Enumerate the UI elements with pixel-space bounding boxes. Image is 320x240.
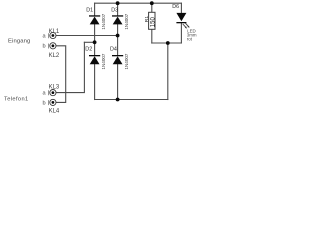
wire D6 top lead [180,3,182,13]
junction node top rail / R1 [150,1,154,5]
wire D2 anode down to bottom rail [94,64,96,99]
svg-text:1N4007: 1N4007 [101,53,106,69]
wire KL2 down to KL4 [56,46,65,103]
svg-text:rot: rot [187,37,193,42]
diode D1 [89,15,100,24]
resistor R1 [149,12,155,29]
wire R1 bottom lead [151,29,153,43]
junction node A [166,41,170,45]
diode D4 [112,55,123,64]
svg-text:D6: D6 [172,4,179,10]
svg-text:Telefon1: Telefon1 [4,97,29,103]
svg-text:1N4007: 1N4007 [101,13,106,29]
svg-text:1N4007: 1N4007 [124,53,129,69]
svg-text:D3: D3 [111,7,118,13]
terminal KL1 [48,32,56,38]
wire R1 top lead [151,3,153,12]
svg-text:KL1: KL1 [49,29,60,35]
svg-text:KL3: KL3 [49,85,60,91]
svg-text:1N4007: 1N4007 [124,13,129,29]
wire top rail DC+ [95,2,182,4]
wire node AC1 stub left [84,41,94,43]
svg-text:R1: R1 [144,16,150,23]
svg-text:KL4: KL4 [49,109,60,115]
wire D1 column top [94,3,96,15]
wire D4 anode down to bottom rail [117,64,119,99]
diode D2 [89,55,100,64]
wire D6 bottom lead [180,23,182,43]
wire D3 column top [117,3,119,15]
svg-text:D1: D1 [86,7,93,13]
wire node A horizontal [152,42,182,44]
svg-text:D4: D4 [110,47,117,53]
svg-text:b: b [43,44,46,50]
wire AC1 down to KL3 [56,42,84,92]
svg-text:b: b [43,100,46,106]
svg-text:D2: D2 [85,47,92,53]
wire bottom rail DC- [95,99,168,101]
junction node bottom rail / D4 [116,98,120,102]
svg-text:Eingang: Eingang [8,39,30,45]
terminal KL3 [48,90,56,96]
LED D6 [176,13,186,23]
svg-text:KL2: KL2 [49,53,60,59]
terminal KL4 [48,99,56,105]
wire KL1 to node AC2 [56,35,117,37]
wire D1 anode to node AC1 [94,24,96,55]
svg-text:150: 150 [151,17,157,28]
junction node top rail / D3 [116,1,120,5]
junction node AC2 / KL1 [116,34,120,38]
wire node A down to bottom rail [167,43,169,100]
wire D3 anode to node AC2 [117,24,119,55]
LED D6 light arrows [183,23,189,28]
junction node AC1 [93,40,97,44]
terminal KL2 [48,43,56,49]
diode D3 [112,15,123,24]
